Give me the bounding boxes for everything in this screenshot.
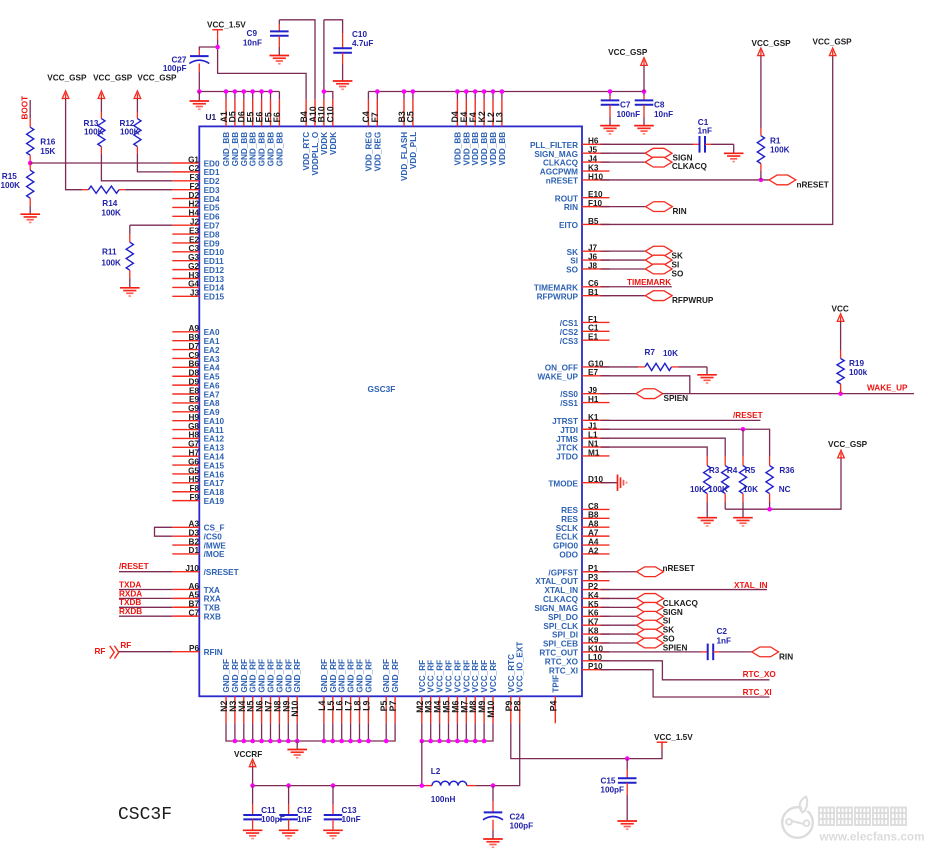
- pin B8 RES (right): [561, 511, 609, 524]
- pin C5 VDD_PLL (top): [406, 99, 418, 169]
- svg-text:VDD_PLL: VDD_PLL: [409, 132, 418, 169]
- pin H7 EA14 (left): [172, 449, 224, 462]
- ground (C8): [634, 126, 654, 134]
- pin E5 GND_BB (top): [246, 99, 258, 166]
- wire GND_RF stub drop: [261, 723, 263, 741]
- capacitor C10 4.7uF: [333, 30, 373, 81]
- svg-text:J6: J6: [588, 252, 598, 261]
- pin B4 VDD_RTC (top): [299, 99, 311, 170]
- pin N8 GND_RF (bottom): [272, 659, 284, 723]
- svg-text:L2: L2: [431, 767, 441, 776]
- pin M2 VCC_RF (bottom): [415, 660, 427, 723]
- svg-text:EA6: EA6: [204, 381, 220, 390]
- junction VDD bus: [375, 89, 380, 94]
- svg-text:EA19: EA19: [204, 497, 225, 506]
- svg-text:TPIF: TPIF: [551, 675, 560, 693]
- connector SPIEN (J9): [636, 389, 663, 399]
- svg-text:C12: C12: [297, 806, 312, 815]
- svg-text:100K: 100K: [120, 127, 140, 136]
- pin K3 AGCPWM (right): [540, 163, 610, 176]
- wire CS_F to /CS0 loop: [155, 527, 173, 536]
- svg-text:100K: 100K: [770, 146, 790, 155]
- pin P9 VCC_RTC (bottom): [504, 654, 516, 723]
- junction C7 bus: [608, 89, 613, 94]
- svg-text:E7: E7: [588, 368, 598, 377]
- junction C8 bus: [642, 89, 647, 94]
- svg-text:GND_RF: GND_RF: [249, 659, 258, 693]
- capacitor C27 100pF: [163, 50, 209, 92]
- svg-text:nRESET: nRESET: [797, 180, 829, 189]
- pin J2 ED7 (left): [172, 217, 220, 230]
- svg-text:F10: F10: [588, 199, 603, 208]
- pin L3 VDD_BB (top): [495, 99, 507, 165]
- pin H4 ED6 (left): [172, 209, 220, 222]
- svg-text:GND_RF: GND_RF: [240, 659, 249, 693]
- svg-text:VCCRF: VCCRF: [234, 750, 262, 759]
- svg-text:TXA: TXA: [204, 586, 220, 595]
- svg-text:C10: C10: [326, 106, 336, 122]
- svg-text:EA2: EA2: [204, 346, 220, 355]
- pin L8 GND_RF (bottom): [353, 659, 365, 723]
- wire GND_RF stub drop: [332, 723, 334, 741]
- svg-text:C2: C2: [717, 627, 728, 636]
- wire TXDA: [119, 589, 172, 591]
- svg-text:4.7uF: 4.7uF: [352, 39, 373, 48]
- wire VCC_1.5V stem: [217, 37, 219, 40]
- wire P9 (VCC_RTC) to VCC_1.5V: [511, 723, 662, 758]
- wire TMODE stub: [601, 482, 618, 484]
- svg-text:M10: M10: [486, 701, 496, 718]
- pin D9 EA6 (left): [172, 377, 220, 390]
- svg-text:TXDB: TXDB: [119, 598, 141, 607]
- svg-text:GND_RF: GND_RF: [275, 659, 284, 693]
- svg-text:E9: E9: [189, 395, 199, 404]
- svg-text:G4: G4: [188, 280, 199, 289]
- pin J7 SK (right): [567, 244, 610, 257]
- svg-text:RTC_XO: RTC_XO: [743, 670, 777, 679]
- wire K-row to SI connector: [601, 615, 637, 617]
- svg-text:GND_RF: GND_RF: [320, 659, 329, 693]
- svg-text:H9: H9: [189, 413, 200, 422]
- wire /RESET to J10: [119, 571, 172, 573]
- svg-text:10K: 10K: [743, 485, 758, 494]
- connector SI: [645, 255, 672, 265]
- svg-text:RTC_OUT: RTC_OUT: [539, 648, 578, 657]
- svg-text:ON_OFF: ON_OFF: [545, 364, 578, 373]
- wire VCC_GSP to bus: [643, 65, 645, 91]
- wire VCCRF rail (lower bus): [253, 785, 426, 787]
- wire VCC_RF stub drop: [465, 723, 467, 741]
- svg-text:RIN: RIN: [779, 653, 793, 662]
- svg-text:L3: L3: [495, 112, 505, 122]
- svg-text:nRESET: nRESET: [546, 177, 578, 186]
- svg-text:100pF: 100pF: [510, 821, 534, 830]
- svg-text:F6: F6: [272, 112, 282, 122]
- svg-text:R14: R14: [102, 199, 117, 208]
- wire J-row to SO connector: [601, 268, 646, 270]
- svg-text:CSC3F: CSC3F: [118, 805, 172, 825]
- svg-text:C1: C1: [588, 324, 599, 333]
- svg-text:L10: L10: [588, 653, 603, 662]
- wire GND_RF stub drop: [367, 723, 369, 741]
- capacitor C8 10nF: [635, 92, 673, 126]
- svg-text:VCC_RF: VCC_RF: [445, 660, 454, 693]
- svg-text:VDDPLL_O: VDDPLL_O: [311, 131, 320, 175]
- svg-text:J2: J2: [190, 217, 200, 226]
- svg-text:EA17: EA17: [204, 479, 225, 488]
- junction VDD bus: [500, 89, 505, 94]
- svg-text:EA11: EA11: [204, 426, 224, 435]
- pin C7 RXB (left): [172, 608, 221, 621]
- svg-text:/SS0: /SS0: [560, 390, 578, 399]
- svg-text:J7: J7: [588, 244, 598, 253]
- svg-text:EITO: EITO: [559, 221, 579, 230]
- svg-text:GND_BB: GND_BB: [275, 132, 284, 167]
- ground (C24): [483, 839, 503, 847]
- pin L10 RTC_XO (right): [545, 653, 610, 666]
- svg-text:A3: A3: [189, 520, 200, 529]
- wire BOOT: [29, 100, 31, 119]
- junction L2/C24/P8: [491, 783, 496, 788]
- svg-text:B5: B5: [588, 217, 599, 226]
- capacitor C1 1nF (series on PLL_FILTER): [601, 118, 734, 153]
- pin L1 JTMS (right): [556, 431, 609, 444]
- svg-text:D7: D7: [189, 342, 200, 351]
- wire F10 to RIN connector: [601, 206, 646, 208]
- wire L2 to P8 riser: [493, 723, 520, 785]
- svg-text:P6: P6: [189, 644, 199, 653]
- svg-text:VCC_GSP: VCC_GSP: [47, 73, 87, 82]
- svg-text:ED10: ED10: [204, 248, 225, 257]
- pin G10 ON_OFF (right): [545, 359, 610, 372]
- junction R16/R15/G1: [28, 161, 33, 166]
- wire VCC_RF stub drop: [448, 723, 450, 741]
- connector SK: [645, 246, 672, 256]
- svg-text:E1: E1: [588, 333, 598, 342]
- svg-text:1nF: 1nF: [717, 637, 732, 646]
- svg-text:H6: H6: [588, 137, 599, 146]
- elecfans watermark logo: [782, 807, 813, 838]
- pin E7 WAKE_UP (right): [538, 368, 610, 381]
- pin G6 EA15 (left): [172, 457, 224, 470]
- svg-text:WAKE_UP: WAKE_UP: [867, 383, 908, 392]
- pin J6 SI (right): [570, 252, 609, 265]
- connector SO (K group): [637, 629, 664, 639]
- svg-text:F2: F2: [189, 182, 199, 191]
- pin J4 CLKACQ (right): [543, 155, 610, 168]
- junction R19/WAKE_UP: [838, 391, 843, 396]
- pin L2 VDD_BB (top): [486, 99, 498, 165]
- resistor R5 10K: [739, 429, 758, 517]
- svg-text:100k: 100k: [849, 368, 868, 377]
- junction bus/E5: [250, 89, 255, 94]
- capacitor C12 1nF: [279, 786, 312, 831]
- junction bus/D5: [233, 89, 238, 94]
- svg-text:GSC3F: GSC3F: [368, 384, 396, 394]
- svg-text:RXDA: RXDA: [119, 589, 142, 598]
- svg-text:TXB: TXB: [204, 604, 220, 613]
- pin N4 GND_RF (bottom): [237, 659, 249, 723]
- junction M2/VCCRF drop: [420, 739, 425, 744]
- junction VDD bus: [402, 89, 407, 94]
- pin C3 ED10 (left): [172, 244, 224, 257]
- svg-text:P1: P1: [588, 564, 598, 573]
- wire J-row to SK connector: [601, 250, 646, 252]
- pin G5 EA16 (left): [172, 466, 224, 479]
- svg-text:SO: SO: [663, 634, 675, 643]
- svg-text:A9: A9: [189, 324, 200, 333]
- svg-text:/CS2: /CS2: [560, 328, 579, 337]
- svg-text:G1: G1: [188, 155, 199, 164]
- pin J5 SIGN_MAG (right): [534, 146, 609, 159]
- power symbol VCC_GSP R1: [758, 48, 765, 56]
- svg-text:F1: F1: [588, 315, 598, 324]
- pin P2 XTAL_IN (right): [544, 582, 609, 595]
- svg-text:TXDA: TXDA: [119, 580, 141, 589]
- svg-text:100K: 100K: [1, 181, 21, 190]
- junction B10 bus: [322, 89, 327, 94]
- svg-text:VCC_RF: VCC_RF: [489, 660, 498, 693]
- svg-text:RTC_XO: RTC_XO: [545, 657, 579, 666]
- pin C4 VDD_REG (top): [361, 99, 373, 171]
- wire B10 to C10 cap column: [324, 20, 343, 33]
- svg-text:E8: E8: [189, 386, 199, 395]
- svg-text:F3: F3: [189, 173, 199, 182]
- svg-text:VCC_GSP: VCC_GSP: [608, 48, 648, 57]
- svg-text:ED6: ED6: [204, 213, 220, 222]
- svg-text:15K: 15K: [40, 147, 55, 156]
- wire B10/C10 tie: [324, 92, 333, 100]
- ground (C1): [724, 153, 744, 161]
- pin A4 GPIO0 (right): [553, 537, 610, 550]
- svg-text:ECLK: ECLK: [556, 533, 578, 542]
- svg-text:SI: SI: [663, 617, 671, 626]
- svg-text:JTDI: JTDI: [560, 426, 578, 435]
- svg-text:/SS1: /SS1: [560, 399, 578, 408]
- svg-text:100pF: 100pF: [163, 64, 187, 73]
- junction C15 node: [625, 756, 630, 761]
- pin M4 VCC_RF (bottom): [433, 660, 445, 723]
- wire R7 ground drop: [706, 367, 708, 375]
- junction M2 drop/L2: [420, 783, 425, 788]
- svg-text:H1: H1: [588, 395, 599, 404]
- pin G3 ED11 (left): [172, 253, 224, 266]
- pin B1 RFPWRUP (right): [537, 288, 610, 301]
- pin C6 TIMEMARK (right): [534, 279, 610, 292]
- wire GND_RF stub drop: [385, 723, 387, 741]
- pin H8 EA12 (left): [172, 431, 224, 444]
- pin D6 GND_BB (top): [237, 99, 249, 166]
- svg-text:D3: D3: [189, 528, 200, 537]
- svg-text:PLL_FILTER: PLL_FILTER: [530, 141, 578, 150]
- svg-text:ED3: ED3: [204, 186, 220, 195]
- pin D7 EA2 (left): [172, 342, 220, 355]
- svg-text:AGCPWM: AGCPWM: [540, 168, 578, 177]
- junction VCC_RF bus: [446, 739, 451, 744]
- svg-text:CLKACQ: CLKACQ: [663, 599, 699, 608]
- wire VCC_RF stub drop: [430, 723, 432, 741]
- svg-text:G2: G2: [188, 262, 199, 271]
- pin L7 GND_RF (bottom): [344, 659, 356, 723]
- svg-text:SPI_CLK: SPI_CLK: [543, 622, 578, 631]
- svg-text:K7: K7: [588, 618, 599, 627]
- svg-text:VDDK: VDDK: [329, 132, 338, 155]
- svg-text:VCC_RF: VCC_RF: [427, 660, 436, 693]
- wire H10 nRESET net: [601, 179, 770, 181]
- junction GND_RF bus: [366, 739, 371, 744]
- wire GND_RF stub drop: [341, 723, 343, 741]
- capacitor C24 100pF: [483, 786, 533, 839]
- svg-text:ROUT: ROUT: [555, 194, 578, 203]
- svg-text:100K: 100K: [84, 127, 104, 136]
- svg-text:GND_RF: GND_RF: [231, 659, 240, 693]
- svg-text:A7: A7: [588, 529, 599, 538]
- svg-text:C15: C15: [600, 777, 615, 786]
- pin H3 ED13 (left): [172, 271, 224, 284]
- svg-text:GND_RF: GND_RF: [329, 659, 338, 693]
- svg-text:G6: G6: [188, 457, 199, 466]
- svg-text:ED1: ED1: [204, 168, 220, 177]
- svg-text:100K: 100K: [101, 259, 121, 268]
- wire K-row to SO connector: [601, 633, 637, 635]
- svg-text:10nF: 10nF: [654, 110, 673, 119]
- wire bottom bus ground drop: [296, 741, 298, 750]
- svg-text:SIGN: SIGN: [663, 608, 683, 617]
- svg-text:J4: J4: [588, 155, 598, 164]
- pin F9 EA19 (left): [172, 493, 224, 506]
- resistor R15 100K: [1, 163, 34, 214]
- junction GND_RF bus: [295, 739, 300, 744]
- svg-text:J10: J10: [185, 564, 199, 573]
- svg-text:C9: C9: [189, 351, 200, 360]
- wire VCC_RF stub drop: [439, 723, 441, 741]
- svg-text:R3: R3: [709, 466, 720, 475]
- svg-text:RES: RES: [561, 515, 578, 524]
- wire TXDB: [119, 606, 172, 608]
- svg-text:D1: D1: [189, 546, 200, 555]
- ground (C10): [333, 81, 353, 89]
- svg-text:B6: B6: [189, 360, 200, 369]
- pin D8 EA5 (left): [172, 369, 220, 382]
- svg-text:VCC_RF: VCC_RF: [480, 660, 489, 693]
- pin A8 SCLK (right): [556, 520, 610, 533]
- pin D1 /MOE (left): [172, 546, 225, 559]
- wire J5 to SIGN connector: [601, 152, 646, 154]
- svg-text:/CS0: /CS0: [204, 532, 223, 541]
- wire K-row to SK connector: [601, 624, 637, 626]
- wire JTMS (L1) to R4: [601, 438, 726, 456]
- pin A5 RXA (left): [172, 591, 221, 604]
- svg-text:B9: B9: [189, 333, 200, 342]
- svg-text:RIN: RIN: [564, 203, 578, 212]
- svg-text:VCC_RF: VCC_RF: [462, 660, 471, 693]
- svg-text:J9: J9: [588, 386, 598, 395]
- pin P1 /GPFST (right): [548, 564, 609, 577]
- svg-text:GND_BB: GND_BB: [240, 132, 249, 167]
- connector RFPWRUP: [645, 291, 672, 301]
- svg-text:SK: SK: [663, 626, 674, 635]
- pin F7 VDD_REG (top): [370, 99, 382, 171]
- power symbol: [657, 742, 668, 749]
- pin L4 GND_RF (bottom): [317, 659, 329, 723]
- wire WAKE_UP net: [663, 393, 914, 395]
- wire VCC_RF bottom bus: [422, 723, 493, 741]
- pin E8 EA7 (left): [172, 386, 220, 399]
- svg-text:R7: R7: [645, 348, 656, 357]
- pin P3 XTAL_OUT (right): [535, 573, 609, 586]
- resistor R36 NC: [766, 456, 795, 509]
- pin F6 GND_BB (top): [272, 99, 284, 166]
- svg-text:E10: E10: [588, 190, 603, 199]
- pin M3 VCC_RF (bottom): [424, 660, 436, 723]
- pin P8 VCC_IO_EXT (bottom): [513, 642, 525, 724]
- junction GND_RF bus: [242, 739, 247, 744]
- wire K-row to SIGN connector: [601, 606, 637, 608]
- svg-text:C2: C2: [189, 164, 200, 173]
- pin K7 SPI_CLK (right): [543, 618, 609, 631]
- svg-text:A4: A4: [588, 537, 599, 546]
- svg-text:RES: RES: [561, 506, 578, 515]
- resistor R3 10K: [690, 456, 720, 518]
- svg-text:VDD_BB: VDD_BB: [471, 132, 480, 166]
- resistor R7 10K (ON_OFF pulldown): [601, 348, 708, 371]
- svg-text:VDD_BB: VDD_BB: [489, 132, 498, 166]
- pin P6 RFIN (left): [172, 644, 222, 657]
- wire GND_RF stub drop: [252, 723, 254, 741]
- pin K10 RTC_OUT (right): [539, 644, 609, 657]
- svg-text:SPI_DO: SPI_DO: [548, 613, 579, 622]
- svg-text:VDD_REG: VDD_REG: [373, 132, 382, 172]
- ground (GND_RF bus): [287, 750, 307, 758]
- pin D10 TMODE (right): [548, 475, 609, 488]
- IC U1 GSC3F chip body: [199, 126, 582, 696]
- resistor R14 100K: [82, 186, 172, 217]
- pin E10 ROUT (right): [555, 190, 610, 203]
- wire B5 EITO to VCC_GSP: [601, 56, 833, 225]
- capacitor C13 10nF: [324, 786, 361, 831]
- svg-text:GND_BB: GND_BB: [222, 132, 231, 167]
- svg-text:H8: H8: [189, 431, 200, 440]
- svg-text:K6: K6: [588, 609, 599, 618]
- svg-text:R1: R1: [770, 137, 781, 146]
- junction GND_RF bus: [339, 739, 344, 744]
- svg-text:RF: RF: [120, 641, 131, 650]
- junction C27/ground on bus: [197, 89, 202, 94]
- pin H1 /SS1 (right): [560, 395, 609, 408]
- capacitor C2 1nF (series on RTC_OUT): [601, 627, 752, 660]
- svg-text:VDD_BB: VDD_BB: [453, 132, 462, 166]
- junction GND_RF bus: [277, 739, 282, 744]
- junction VDD bus: [464, 89, 469, 94]
- svg-text:CS_F: CS_F: [204, 524, 225, 533]
- svg-text:EA5: EA5: [204, 373, 220, 382]
- svg-text:C9: C9: [247, 29, 258, 38]
- svg-text:R19: R19: [849, 359, 864, 368]
- pin F1 /CS1 (right): [560, 315, 610, 328]
- wire B1 to RFPWRUP connector: [601, 295, 646, 297]
- svg-text:SO: SO: [672, 269, 684, 278]
- power symbol: [212, 30, 223, 37]
- pin G4 ED14 (left): [172, 280, 224, 293]
- svg-text:100nH: 100nH: [431, 795, 456, 804]
- svg-text:H5: H5: [189, 475, 200, 484]
- wire VCC_1.5V bottom stem: [661, 742, 663, 749]
- pin N1 JTCK (right): [557, 439, 610, 452]
- wire VCC_1.5V down to B4 (VDD_RTC): [218, 47, 307, 99]
- wire R4/R36 pull-up bus to VCC_GSP: [725, 458, 841, 509]
- svg-text:RFIN: RFIN: [204, 648, 223, 657]
- svg-text:GND_RF: GND_RF: [356, 659, 365, 693]
